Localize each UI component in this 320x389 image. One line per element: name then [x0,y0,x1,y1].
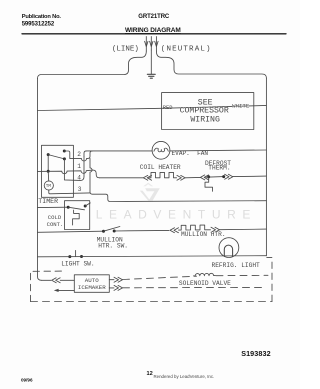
refrig light bulb [219,238,239,258]
defrost therm capillary [205,178,213,191]
coil heater element [149,172,177,177]
header rule [22,33,286,35]
light switch contact left [68,255,71,258]
right bus wire [265,78,267,256]
solenoid row dashed wire left [123,276,197,279]
wire timer common vertical A-D [47,155,49,172]
icemaker row B wire right [109,287,114,289]
connector arrows icemaker right row B [114,285,123,290]
wire TM to terminal 3 [49,190,90,194]
connector arrows defrost right [225,174,233,179]
mullion switch arm [104,227,120,232]
svg-text:LEADVENTURE: LEADVENTURE [96,208,257,222]
svg-text:TIMER: TIMER [38,198,58,205]
connector arrows defrost left [200,175,208,180]
wire compressor row right [254,104,267,106]
cold control left contact [67,206,70,209]
wire to defrost therm [185,176,200,178]
evap fan row wire left [86,150,152,152]
watermark logo [140,183,160,201]
cold control switch arm [68,207,84,210]
evap fan motor [152,141,170,159]
wire mullion heater to right bus [220,228,267,231]
wire compressor row left [38,108,162,110]
mullion heater row wire [114,229,169,232]
plug prong arrows [145,37,159,51]
svg-text:SOLENOID VALVE: SOLENOID VALVE [179,280,231,287]
ground wire [150,50,152,74]
icemaker dashed enclosure left [31,271,62,301]
defrost therm contacts [206,175,225,178]
svg-text:2: 2 [77,151,81,158]
svg-text:(NEUTRAL): (NEUTRAL) [161,46,212,54]
svg-text:12: 12 [147,371,153,377]
svg-text:LIGHT SW.: LIGHT SW. [61,260,94,267]
mullion switch contact right [113,230,116,233]
svg-text:WIRING DIAGRAM: WIRING DIAGRAM [125,27,181,34]
svg-text:REFRIG. LIGHT: REFRIG. LIGHT [212,262,261,269]
wire timer terminal 2 with hop [70,151,93,161]
connector arrows icemaker left [52,278,61,283]
ground symbol [147,74,155,78]
connector arrows icemaker right row A [114,277,123,282]
wire node D to timer motor [47,171,50,181]
timer box [42,145,74,197]
evap fan winding [154,148,168,152]
auto icemaker box [74,275,109,293]
wire timer B to terminal 2 [64,151,70,158]
compressor box wire-through [162,106,254,109]
connector arrows coil heater left [143,175,151,180]
wire neutral-side from plug to right bus [156,51,266,78]
mullion switch row wire left [38,231,104,232]
svg-text:CONT.: CONT. [47,221,64,228]
wire to icemaker box [60,279,74,281]
light switch plunger [75,250,77,256]
svg-text:GRT21TRC: GRT21TRC [138,14,170,20]
svg-text:TM: TM [46,184,52,189]
svg-text:COMPRESSOR: COMPRESSOR [180,107,229,116]
svg-text:4: 4 [77,174,81,181]
wire line-side from plug to left bus [38,51,147,79]
cold control capillary [73,210,80,225]
cold control right contact arm up [85,203,90,206]
icemaker dashed enclosure bottom [31,301,273,303]
svg-text:AUTO: AUTO [85,277,99,284]
svg-text:09/96: 09/96 [21,377,33,382]
svg-text:Rendered by LeadVenture, Inc.: Rendered by LeadVenture, Inc. [154,374,215,379]
cold control box [65,201,90,230]
light row wire [38,256,267,257]
connector arrows coil heater right [177,175,185,180]
mullion heater element [179,225,211,230]
timer node D [47,170,50,173]
left bus wire [38,79,42,281]
svg-text:5995312252: 5995312252 [22,22,55,28]
icemaker row A wire [109,279,114,281]
refrig light filament [224,245,232,256]
solenoid row dashed wire right [216,274,268,276]
light switch contact right [80,255,83,258]
wire left bus to cold control [38,206,69,208]
svg-text:MULLION HTR.: MULLION HTR. [181,231,226,238]
evap fan row wire right [170,149,267,152]
coil heater row wire [100,177,144,179]
svg-text:COIL HEATER: COIL HEATER [140,164,181,171]
timer switch arm A-C [48,155,64,159]
wire riser 4 to row2 elbow [84,151,86,157]
svg-text:Publication No.: Publication No. [22,14,62,20]
svg-text:WIRING: WIRING [190,116,220,125]
svg-text:3: 3 [78,186,82,193]
svg-text:HTR. SW.: HTR. SW. [98,243,128,250]
icemaker row B arrow [54,289,59,292]
icemaker dashed enclosure right [267,258,272,302]
icemaker row A wire from bus [42,279,52,281]
connector arrows mullion right [211,227,220,232]
wire terminal 1 from left bus with hops [38,170,100,178]
connector arrows mullion left [170,228,179,233]
wire terminal 2 junction down to neutral row with hop [90,158,266,201]
cold control right contact [84,205,87,208]
svg-text:(LINE): (LINE) [112,46,139,54]
icemaker row B wire [59,289,75,291]
timer pivot A [47,153,50,156]
timer contact B [63,150,66,153]
svg-text:ICEMAKER: ICEMAKER [78,284,106,291]
mullion switch contact left [102,230,105,233]
wire timer C down to terminal 4 [64,157,84,181]
svg-text:THERM.: THERM. [208,165,230,172]
icemaker row B dashed wire [123,286,266,288]
svg-text:S193832: S193832 [241,349,270,358]
compressor box [162,93,254,130]
svg-text:WHITE: WHITE [232,102,250,109]
wire defrost to right bus [233,175,267,178]
timer motor TM [44,181,53,190]
timer contact C [63,157,66,160]
svg-text:1: 1 [77,163,81,170]
solenoid coil [193,273,215,276]
